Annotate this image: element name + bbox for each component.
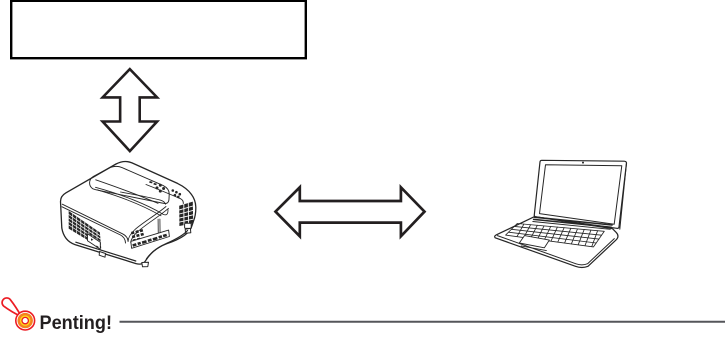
laptop lid edge double line <box>620 163 627 229</box>
projector AC port <box>185 223 192 228</box>
laptop deck inner rim <box>497 236 614 265</box>
laptop touchpad <box>519 236 549 251</box>
laptop lid outer <box>534 160 626 228</box>
laptop hinge <box>535 217 613 225</box>
laptop webcam <box>582 162 584 164</box>
projector right foot <box>185 228 191 233</box>
projector bottom rim lines <box>76 242 136 261</box>
projector mirror diagonal <box>96 180 158 204</box>
projector left-face top crease (double line) <box>62 204 128 241</box>
horizontal double arrow <box>276 187 425 236</box>
projector body silhouette <box>61 161 196 264</box>
laptop <box>495 160 627 267</box>
projector front foot <box>142 262 149 267</box>
vertical double arrow <box>103 69 158 151</box>
projector control pad buttons <box>149 181 181 198</box>
projector front post <box>157 219 159 237</box>
projector top/right-face crease <box>146 185 183 204</box>
projector small vent marks above ports <box>131 229 144 242</box>
projector mirror wedge lines <box>120 192 165 204</box>
Penting icon: exclamation teardrop <box>2 298 21 317</box>
projector left foot <box>99 252 105 258</box>
projector <box>61 161 196 266</box>
Penting icon: bullseye <box>16 311 35 330</box>
Penting! label <box>40 313 113 334</box>
svg-text:Penting!: Penting! <box>40 313 113 334</box>
projector filter door <box>88 234 101 249</box>
laptop screen <box>540 165 622 224</box>
projector left vent grid <box>69 211 102 249</box>
laptop keyboard grid <box>506 224 605 247</box>
laptop base <box>495 217 618 268</box>
projector front cliff curve <box>128 207 166 242</box>
divider line <box>120 321 725 323</box>
projector ports panel <box>131 230 170 248</box>
screen box <box>11 1 306 58</box>
projector top-face front edge (double line) <box>96 187 169 215</box>
projector mirror cover <box>90 166 170 203</box>
projector right vent grid <box>179 202 193 226</box>
